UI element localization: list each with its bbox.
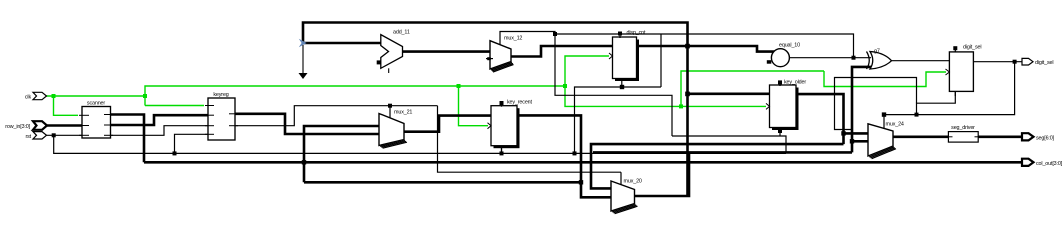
wire key_older clrn stub drop (779, 131, 781, 136)
wire digit_sel fb down (884, 62, 1015, 115)
wire clk to disp_cnt (565, 56, 609, 86)
block digit_sel (946, 45, 982, 97)
svg-text:scanner: scanner (87, 101, 105, 107)
wire clk jog to digit_sel (824, 71, 946, 87)
junction equal out (852, 56, 856, 60)
bus rail y144 (591, 144, 844, 188)
adder add_11 (377, 30, 410, 74)
svg-text:col_out[3:0]: col_out[3:0] (1036, 161, 1062, 167)
wire rst tap disp_cnt corridor (575, 87, 662, 153)
output pin seg[6:0] (1022, 133, 1055, 141)
input pin clk (25, 92, 47, 100)
wire clk to key_recent (459, 86, 489, 126)
wire xor out (892, 60, 950, 62)
wire digit_sel out (974, 61, 1023, 63)
bus to key_older (688, 93, 770, 96)
bus to equal_10 (688, 46, 775, 52)
bus riser x852 to xor (852, 67, 875, 152)
WIRES-GREEN (46, 56, 946, 126)
wire clk down x565 (565, 86, 681, 106)
junction clk x458 (457, 84, 461, 88)
wire rst tap key_older (672, 136, 786, 153)
bus seg_driver out (978, 136, 1022, 139)
wire key_recent clrn drop (501, 147, 503, 153)
junction mux_24 sel (882, 112, 886, 116)
wire rst rail (54, 135, 786, 153)
WIRES-THIN-BLACK (46, 32, 1022, 186)
junction rst key_recent (500, 151, 504, 155)
block key_recent (488, 100, 533, 152)
gate xor g7 (867, 49, 892, 70)
junction key_older in (685, 92, 690, 97)
junction rst disp (573, 151, 577, 155)
bus rail y182 (304, 181, 581, 184)
svg-text:mux_20: mux_20 (624, 179, 642, 185)
bus scanner out1 (111, 115, 145, 163)
wire sel to mux_21 (389, 106, 391, 118)
junction clk x681 (679, 104, 683, 108)
svg-text:seg[6:0]: seg[6:0] (1036, 135, 1055, 141)
block disp_cnt (609, 30, 646, 86)
junction sel mux_21 (388, 104, 392, 108)
bus branch x304 (304, 126, 379, 182)
wire mux_12 sel loop (500, 32, 672, 137)
wire clk riser x145 (145, 86, 565, 106)
svg-text:g7: g7 (874, 49, 880, 55)
circle equal_10 (767, 43, 800, 67)
wire keyreg out2 sel net (235, 106, 438, 126)
bus mux_21 out to key_recent (405, 116, 492, 132)
junction rail182 (579, 180, 583, 184)
bus rail y162 to col_out (144, 161, 1022, 164)
bus rail y152 (593, 151, 852, 154)
junction clk x565 (563, 84, 567, 88)
wire scanner out3 (111, 126, 209, 136)
svg-text:digit_sel: digit_sel (1035, 60, 1053, 66)
bus to add_11 (303, 42, 381, 45)
svg-text:rst: rst (25, 134, 31, 140)
svg-text:digit_sel: digit_sel (963, 45, 981, 51)
wire equal_10 out (790, 57, 871, 59)
wire sel drop x437.5 (438, 106, 622, 173)
wire stub riser x834.5 (835, 78, 917, 130)
svg-text:disp_cnt: disp_cnt (627, 30, 647, 36)
svg-text:add_11: add_11 (393, 30, 410, 36)
wire rst from pin (46, 134, 82, 136)
bus scanner out2 to keyreg (111, 115, 209, 125)
bus mux_24 in1 (844, 132, 869, 135)
junction equal top (553, 32, 557, 36)
block seg_driver (946, 125, 982, 142)
svg-text:equal_10: equal_10 (779, 43, 800, 49)
bus mux_20 out (635, 152, 690, 196)
block key_older (766, 80, 806, 134)
wire rst tap to keyreg (175, 134, 209, 153)
junction digit_sel fb (915, 113, 919, 117)
junction clk pin (52, 94, 56, 98)
wire sel to mux_20 (620, 172, 622, 185)
wire equal net top rail (555, 34, 854, 58)
bus key_older out (796, 94, 844, 144)
svg-text:key_recent: key_recent (507, 100, 533, 106)
junction clk x145 (143, 94, 147, 98)
wire clk riser x681 (681, 71, 824, 106)
svg-text:keyreg: keyreg (213, 92, 228, 98)
ground arrow below top-loop junction (299, 45, 308, 79)
input pin row_in[3:0] (5, 121, 47, 130)
svg-text:mux_12: mux_12 (504, 36, 522, 42)
junction mux_24 in2 (850, 139, 854, 143)
bus key_recent out (517, 115, 611, 197)
bus add_11 out (403, 50, 491, 53)
junction disp_cnt clrn (620, 85, 624, 89)
junction rail162 (302, 160, 306, 164)
wire rst drop x661 (660, 34, 662, 87)
junction digit_sel out (1013, 60, 1017, 64)
bus mux_24 out to seg_driver (893, 136, 948, 139)
wire clk to key_older (681, 105, 766, 107)
output pin digit_sel (1022, 58, 1053, 66)
junction rst pin (52, 133, 56, 137)
wire clk trunk (46, 95, 145, 97)
block scanner (79, 101, 113, 139)
svg-text:mux_21: mux_21 (394, 110, 412, 116)
mux mux_21 (379, 110, 412, 149)
wire clk to scanner (54, 96, 79, 115)
WIRES-THICK-BUS (47, 23, 1022, 198)
mux mux_24 (868, 122, 904, 159)
input pin rst (25, 132, 46, 140)
mux mux_12 (486, 36, 522, 73)
bus feedback top loop (303, 23, 688, 197)
junction rst keyreg (173, 151, 177, 155)
bus mux_12 out to disp_cnt (511, 46, 613, 57)
svg-text:clk: clk (25, 95, 32, 101)
wire mux_24 sel stub (883, 115, 885, 129)
junction disp out (685, 44, 690, 49)
junction top loop blue connector arrow (299, 39, 307, 47)
bus keyreg out1 to mux_21 (235, 114, 379, 134)
bus row_in to scanner (47, 124, 82, 127)
svg-text:mux_24: mux_24 (886, 122, 904, 128)
wire digit_sel bottom stub path (917, 92, 956, 115)
block keyreg (205, 92, 238, 140)
mux mux_20 (611, 179, 642, 214)
bus mux_24 in2 (852, 140, 868, 143)
svg-text:key_older: key_older (784, 80, 806, 86)
bus disp_cnt out (637, 45, 688, 48)
wire clk to keyreg (145, 105, 204, 107)
output pin col_out[3:0] (1022, 159, 1062, 167)
svg-text:row_in[3:0]: row_in[3:0] (5, 124, 30, 130)
junction key_older out (841, 131, 845, 135)
svg-text:seg_driver: seg_driver (951, 125, 975, 131)
